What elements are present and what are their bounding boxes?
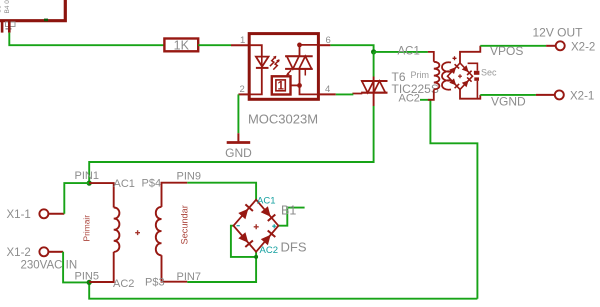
svg-text:2: 2: [240, 84, 245, 95]
svg-text:AC2: AC2: [113, 278, 134, 290]
transformer TR1 secondary winding: [156, 183, 188, 282]
pin stub: opto pin 2: [238, 93, 249, 95]
wire: AC1 net to transformer primary: [374, 51, 428, 53]
internal wire: triac bottom to pin 4: [300, 69, 319, 95]
junction bridge: [254, 255, 258, 259]
svg-text:AC1: AC1: [398, 45, 420, 57]
svg-text:AC1: AC1: [114, 178, 135, 190]
svg-text:P$4: P$4: [142, 178, 162, 190]
wire VGND: [480, 94, 536, 96]
terminal X2-1: [555, 90, 564, 99]
svg-text:12V OUT: 12V OUT: [533, 26, 584, 40]
wire bridge minus loop: [231, 226, 256, 257]
wire: junction down to triac: [373, 52, 375, 77]
svg-text:GND: GND: [225, 146, 252, 160]
T2 rectifier diamond: [448, 63, 473, 89]
ground GND: [227, 133, 251, 142]
IC U1 fragment (top-left, partially off-canvas): [0, 0, 65, 30]
terminal X1-2: [39, 247, 48, 256]
svg-text:AC2: AC2: [260, 245, 278, 256]
svg-text:PIN5: PIN5: [75, 271, 99, 283]
svg-text:4: 4: [325, 84, 330, 95]
T2 rectifier diode 1: [449, 64, 459, 74]
svg-text:B1: B1: [281, 204, 296, 218]
pin stub X2-1: [536, 94, 555, 96]
junction PIN5: [87, 280, 92, 285]
T2 rectifier diode 3: [449, 78, 459, 88]
svg-text:VPOS: VPOS: [490, 44, 523, 58]
wire: AC2 net to T2 primary bottom: [420, 100, 477, 299]
wire X1-2 to PIN5: [63, 252, 89, 283]
svg-text:Secundar: Secundar: [180, 205, 190, 244]
T2 center mark: [458, 74, 462, 78]
light emission arrows: [270, 56, 280, 70]
junction PIN1: [87, 181, 92, 186]
svg-text:1: 1: [277, 81, 284, 93]
pin stub X2-2: [546, 45, 556, 47]
wire: R1 to opto pin 1: [198, 44, 231, 46]
T2 smoothing cap: [468, 63, 480, 98]
svg-text:VGND: VGND: [491, 95, 526, 109]
wire: triac down and AC2 rail to transformer TR1: [89, 106, 373, 183]
svg-text:1: 1: [240, 35, 245, 46]
T2 polarity mark: [453, 56, 457, 60]
T2 rectifier diode 4: [462, 77, 472, 87]
svg-text:B4 0: B4 0: [4, 0, 11, 14]
svg-text:X2-2: X2-2: [571, 42, 595, 54]
svg-text:P$3: P$3: [145, 277, 165, 289]
triac T6: [352, 77, 387, 107]
T2 output bottom rail: [460, 89, 480, 98]
wire: opto pin 4 to triac gate: [336, 93, 353, 96]
wire: IC pin to resistor R1: [9, 33, 164, 46]
wire VPOS: [480, 45, 546, 47]
junction AC1: [371, 49, 376, 54]
DFS plus mark: [272, 224, 276, 228]
terminal X1-1: [39, 209, 48, 218]
bottom rail wire: [89, 282, 477, 298]
optocoupler OK1 MOC3023M box: [249, 34, 318, 100]
internal wire: triac to pin 6: [300, 45, 319, 56]
triac inside opto: [285, 56, 313, 75]
wire X1-1 to PIN1: [64, 183, 89, 214]
DFS diode 1: [238, 204, 253, 219]
resistor R1: [164, 39, 198, 52]
wire: opto pin 2 down to ground: [237, 94, 239, 133]
bridge rectifier DFS diamond: [234, 200, 279, 252]
terminal X2-2: [556, 41, 565, 50]
wire: opto pin 6 to junction: [330, 45, 373, 52]
pin stub X1-2: [48, 251, 63, 253]
svg-text:230VAC IN: 230VAC IN: [21, 260, 78, 272]
svg-text:PIN9: PIN9: [177, 171, 201, 183]
internal wire: indicator to junction: [291, 84, 300, 86]
TR1 coupling mark: [135, 230, 140, 235]
transformer T2 secondary loops: [442, 62, 451, 89]
svg-text:Primair: Primair: [82, 215, 92, 242]
svg-text:Prim: Prim: [411, 70, 430, 80]
svg-text:Sec: Sec: [481, 68, 497, 78]
wire PIN7 to bridge AC2: [187, 252, 256, 282]
internal junction dot: [297, 43, 302, 48]
pin stub: opto pin 1: [231, 44, 249, 46]
pin stub: opto pin 4: [318, 93, 335, 95]
LED inside opto: [249, 45, 268, 94]
gate arrow to indicator: [286, 70, 291, 75]
wire bridge B+ stub: [278, 208, 304, 226]
svg-text:AC1: AC1: [257, 196, 275, 207]
DFS minus mark: [237, 225, 240, 227]
gate indicator box with 1: [272, 76, 291, 94]
svg-text:1K: 1K: [174, 38, 190, 52]
IC pin 1B: [8, 21, 11, 33]
svg-text:6: 6: [326, 35, 331, 46]
DFS diode 2: [261, 206, 276, 221]
svg-text:AC2: AC2: [399, 93, 420, 105]
DFS diode 4: [261, 231, 276, 246]
DFS diode 3: [238, 232, 253, 247]
IC pin 1C: [1, 21, 4, 33]
transformer TR1 primary winding: [89, 183, 119, 282]
T2 output top rail: [460, 46, 480, 63]
transformer T2 primary winding: [428, 52, 439, 100]
svg-text:X1-1: X1-1: [7, 209, 31, 221]
svg-text:C5: C5: [0, 5, 3, 14]
svg-text:DFS: DFS: [281, 240, 307, 255]
svg-text:PIN1: PIN1: [75, 170, 99, 182]
svg-text:MOC3023M: MOC3023M: [248, 112, 318, 127]
pin stub X1-1: [48, 213, 64, 215]
wire PIN9 to bridge AC1: [187, 183, 256, 200]
pin stub: opto pin 6: [318, 44, 330, 46]
internal junction dot: [297, 83, 302, 88]
T2 rectifier diode 2: [462, 65, 472, 75]
DFS center plus: [254, 224, 259, 229]
svg-text:X1-2: X1-2: [7, 247, 31, 259]
svg-text:X2-1: X2-1: [570, 91, 594, 103]
